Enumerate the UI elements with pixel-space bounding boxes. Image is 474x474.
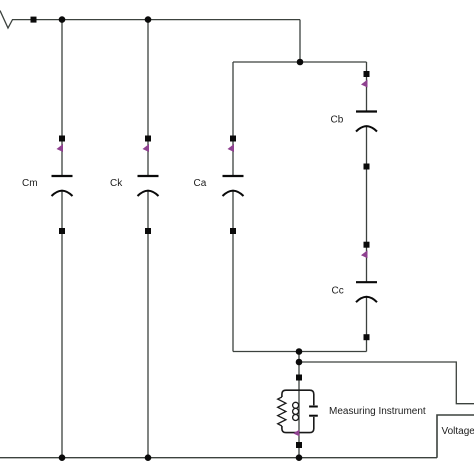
svg-text:Cc: Cc bbox=[332, 286, 344, 297]
svg-text:Voltage: Voltage bbox=[442, 426, 474, 437]
svg-text:Ca: Ca bbox=[194, 178, 207, 189]
svg-text:Ck: Ck bbox=[110, 178, 123, 189]
svg-text:Cb: Cb bbox=[331, 115, 344, 126]
svg-text:Measuring Instrument: Measuring Instrument bbox=[329, 406, 426, 417]
svg-text:Cm: Cm bbox=[22, 178, 38, 189]
